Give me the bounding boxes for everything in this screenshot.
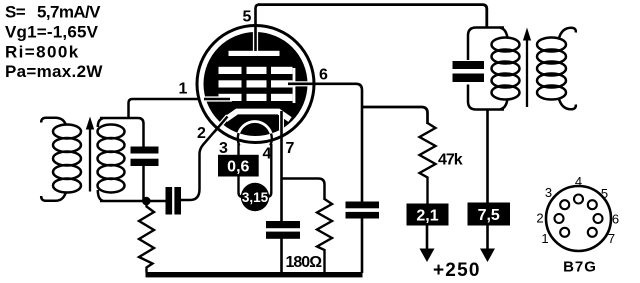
capacitor C4 screen bypass on pin6 line — [346, 202, 380, 219]
tube V1 grid dashes row 3 — [219, 94, 293, 101]
node junction dot at T1 secondary bottom — [142, 197, 151, 206]
wire T2 secondary bottom lead — [559, 99, 576, 109]
wire pin7 branch to R2 — [282, 179, 325, 201]
wire T1 primary top lead — [41, 118, 66, 126]
transformer T1 left primary coil — [53, 125, 81, 193]
B7G socket outline — [546, 186, 611, 251]
supply arrow below 7,5 — [480, 226, 495, 263]
B7G pin hole 5 — [588, 200, 597, 209]
wire pin 6 lead — [288, 84, 362, 205]
svg-text:7,5: 7,5 — [478, 207, 500, 224]
wire T1 secondary frame top — [100, 118, 144, 151]
tube V1 heater arc (black part outside disc) — [238, 122, 272, 146]
tube V1 pentode: envelope outer circle — [197, 26, 314, 143]
wire pin 5 lead — [256, 5, 260, 51]
svg-text:Pa=max.2W: Pa=max.2W — [5, 62, 103, 81]
T2 tuning arrow — [523, 28, 531, 108]
spec text S=5,7mA/V — [5, 3, 103, 82]
transformer T1 secondary coil — [98, 125, 125, 193]
svg-text:1: 1 — [179, 81, 188, 98]
tube V1 heater arc (white inside disc) — [238, 122, 272, 146]
wire pin 4 heater leg — [267, 144, 272, 197]
transformer T2 secondary coil — [537, 38, 566, 100]
svg-text:6: 6 — [612, 212, 619, 227]
wire T2 secondary top lead — [559, 28, 576, 38]
transformer T2 primary coil — [492, 38, 520, 100]
svg-text:3: 3 — [219, 140, 228, 157]
label circle 3,15 — [241, 183, 269, 211]
tube V1 grid dashes row 2 — [219, 80, 293, 87]
B7G pin hole 1 — [560, 228, 569, 237]
B7G pin hole 2 — [555, 214, 564, 223]
svg-text:3: 3 — [545, 185, 552, 200]
wire pin 7 down — [280, 111, 283, 224]
wire pin6 line lower segment — [361, 217, 364, 274]
B7G pin hole 7 — [588, 228, 597, 237]
resistor R2 180 ohm — [317, 199, 332, 273]
T1 tuning arrow — [86, 117, 94, 192]
capacitor C3 cathode bypass on pin7 line — [266, 221, 300, 239]
tube V1 grid dashes row 1 — [219, 67, 293, 74]
tube V1 inner black disc — [204, 32, 308, 136]
wire pin 3 heater leg — [237, 144, 239, 156]
label box 7,5 — [468, 203, 511, 226]
label box 0,6 heater voltage — [218, 155, 259, 177]
wire T1 primary bottom lead — [41, 192, 66, 201]
B7G pin hole 4 — [574, 195, 583, 204]
svg-text:B7G: B7G — [563, 259, 597, 276]
resistor R3 47k — [420, 123, 436, 204]
capacitor C1 tuning (parallel with T1 secondary) — [131, 147, 159, 167]
svg-text:+250: +250 — [433, 260, 481, 281]
capacitor C5 tuning (parallel with T2 primary) — [453, 61, 485, 82]
tube V1 cathode band (white) — [226, 112, 291, 120]
wire screen branch to R3 — [362, 107, 428, 124]
B7G pin hole 6 — [594, 214, 603, 223]
svg-text:180Ω: 180Ω — [286, 254, 323, 271]
svg-text:7: 7 — [608, 231, 615, 246]
svg-text:7: 7 — [286, 140, 295, 157]
wire top rail pin5 to T2 — [258, 5, 487, 28]
wire pin 1 halo inside disc — [204, 96, 232, 101]
svg-text:2: 2 — [197, 125, 206, 142]
svg-text:4: 4 — [263, 146, 272, 163]
wire T1 secondary frame bottom and to junction — [142, 162, 145, 202]
tube V1 grid side connector (white) — [293, 68, 296, 103]
capacitor C2 coupling — [166, 187, 182, 215]
wire pin 5 halo inside disc — [253, 30, 258, 52]
ground rail (chassis) — [146, 272, 363, 277]
B7G pin hole 3 — [560, 200, 569, 209]
svg-text:47k: 47k — [438, 152, 463, 169]
resistor R1 grid leak — [139, 201, 154, 273]
svg-text:2: 2 — [536, 211, 543, 226]
svg-text:5,7mA/V: 5,7mA/V — [37, 3, 101, 22]
svg-text:S=: S= — [5, 3, 26, 22]
svg-text:5: 5 — [601, 186, 608, 201]
svg-text:0,6: 0,6 — [227, 159, 249, 176]
svg-text:Ri=800k: Ri=800k — [5, 43, 80, 62]
svg-text:3,15: 3,15 — [242, 190, 269, 205]
wire pin 1 inside segment — [204, 98, 230, 101]
svg-text:1: 1 — [541, 231, 548, 246]
tube V1 anode bar (white) — [229, 51, 280, 56]
svg-text:2,1: 2,1 — [416, 208, 438, 225]
svg-text:4: 4 — [575, 174, 582, 189]
svg-text:Vg1=-1,65V: Vg1=-1,65V — [5, 23, 99, 42]
wire pin 6 halo inside disc — [288, 81, 308, 86]
wire pin 7 halo inside disc — [279, 112, 284, 130]
supply arrow below 2,1 — [420, 226, 435, 263]
svg-text:5: 5 — [243, 9, 252, 26]
label box 2,1 — [407, 204, 449, 226]
wire pin 1 to T1 frame top — [129, 99, 231, 118]
wire T2 primary bottom to 7,5 box — [486, 110, 489, 204]
wire pin 2 diagonal (drawn above under C2 path) — [214, 117, 228, 133]
wire pin 2 halo inside disc — [211, 116, 228, 136]
transformer T2 primary frame — [468, 28, 504, 61]
svg-text:6: 6 — [319, 67, 328, 84]
wire C2 to pin 2 — [181, 117, 228, 201]
